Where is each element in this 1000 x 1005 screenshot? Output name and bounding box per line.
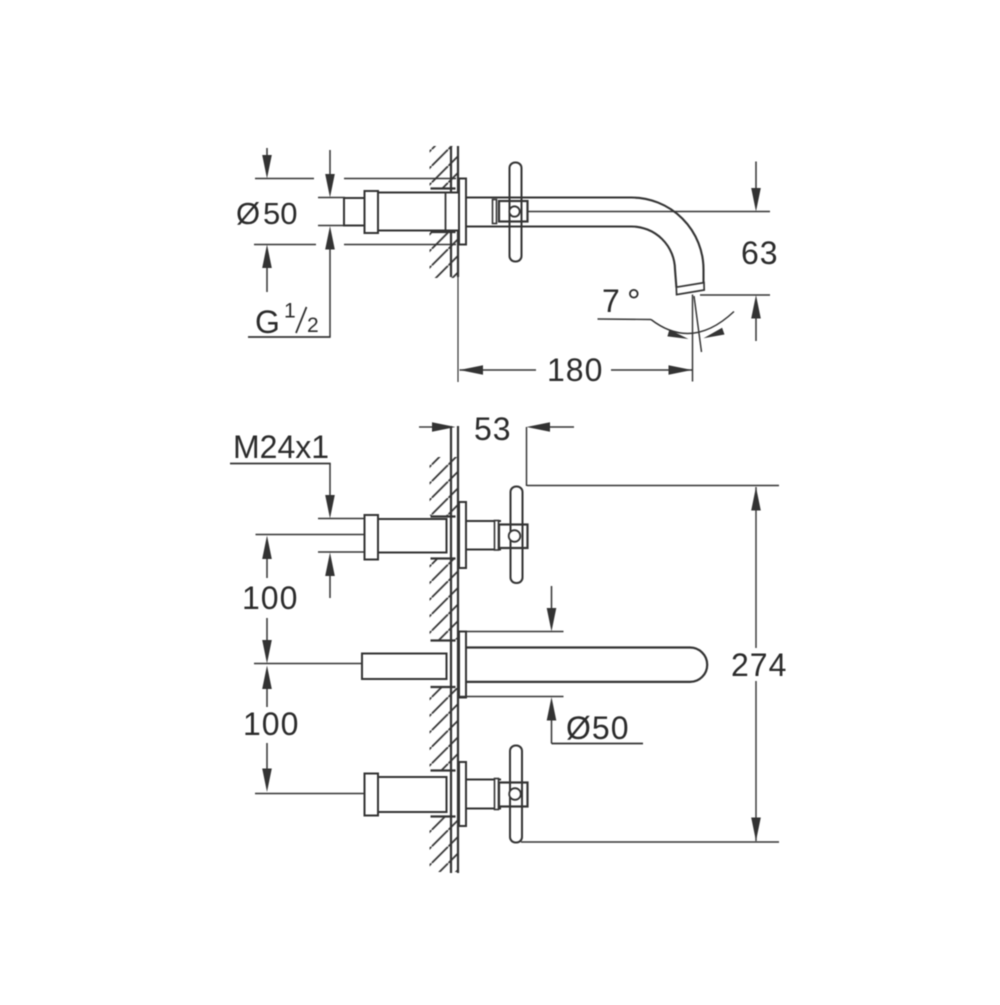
dim Ø50 up arrow: [266, 266, 268, 292]
top valve ring (front): [365, 515, 379, 560]
dim 63 down arrow: [755, 162, 757, 191]
dim 180 line left segment: [460, 369, 537, 371]
svg-text:°: °: [627, 283, 641, 321]
wall face line (left): [450, 146, 452, 277]
wall hatch band 3: [430, 688, 459, 770]
bottom valve hub: [499, 783, 528, 807]
top valve flange: [459, 502, 466, 568]
M24x1 leader underline: [230, 463, 331, 465]
escutcheon flange (side view): [459, 179, 466, 245]
dim 53 right arrowhead and line: [527, 422, 551, 432]
dim 63 extension line bottom: [700, 294, 770, 296]
7 deg right arrowhead: [704, 328, 725, 339]
spout rough-in body (behind wall): [362, 654, 447, 680]
bottom valve body: [378, 777, 447, 812]
M24x1 extension lines: [318, 518, 364, 520]
dim Ø50 extension line bottom: [254, 244, 316, 246]
svg-text:2: 2: [307, 314, 319, 337]
dim 274 down arrowhead: [751, 818, 761, 842]
wall hatch band 2: [430, 560, 459, 640]
spout outlet face (7 deg cut): [676, 283, 704, 295]
wall section hatch (top view, lower band): [430, 233, 459, 279]
bottom valve ring: [365, 774, 379, 816]
top valve hub: [499, 525, 528, 549]
dim 100 lower: down arrow: [266, 743, 268, 771]
G1/2 nipple: [344, 198, 366, 226]
dim G1/2 up arrow with leader: [325, 226, 335, 250]
dim G1/2 extension line bottom: [318, 225, 345, 227]
spout flange (front): [459, 632, 466, 698]
wall hole edges bottom valve: [431, 769, 456, 771]
dim 180 left arrowhead: [460, 365, 484, 375]
wall face line right (front view): [457, 426, 459, 873]
svg-text:180: 180: [547, 352, 603, 388]
dim 274 up arrowhead: [751, 487, 761, 511]
svg-text:100: 100: [242, 580, 298, 616]
spout axis extension line: [254, 663, 362, 665]
svg-text:1: 1: [284, 300, 296, 323]
handle cross bar (side view): [510, 163, 522, 262]
top valve collar: [495, 521, 499, 551]
7 deg left arrowhead: [667, 330, 688, 339]
dim 100 upper: down arrow: [266, 618, 268, 642]
dim Ø50 extension line top: [255, 178, 314, 180]
wall hatch band 4: [430, 818, 459, 873]
bottom valve handle bar: [510, 746, 522, 843]
dim 274 extension line bottom: [521, 841, 779, 843]
dim 180 line right segment: [611, 369, 692, 371]
valve body: [378, 193, 459, 231]
outlet vertical extension line: [692, 295, 694, 382]
bottom valve flange: [459, 762, 466, 826]
svg-text:274: 274: [731, 647, 787, 683]
dim 180 right arrowhead: [669, 365, 693, 375]
M24x1 leader vertical + down arrow: [329, 464, 331, 498]
7 deg tilted stream line: [694, 296, 702, 352]
dim Ø50 (bottom) extension lines: [457, 631, 564, 633]
wall section hatch (top view, upper band): [430, 146, 459, 188]
bottom valve stem lines: [466, 779, 501, 781]
handle hub: [499, 201, 528, 222]
wall hole edges top valve: [431, 515, 456, 517]
top valve axis extension line: [256, 534, 365, 536]
handle screw circle: [509, 206, 519, 216]
svg-text:G: G: [255, 304, 280, 340]
svg-text:7: 7: [602, 283, 620, 319]
wall face line left (front view): [450, 426, 452, 873]
bottom valve screw circle: [509, 788, 521, 800]
dim Ø50 down arrow: [266, 148, 268, 158]
dim 53 left line and arrowhead: [419, 426, 434, 428]
top valve screw circle: [509, 530, 521, 542]
dim 100 upper: up arrow: [262, 536, 272, 560]
dim 63 extension line top (axis): [528, 211, 771, 213]
wall hole edges spout: [431, 639, 456, 641]
dim 274 line upper: [755, 487, 757, 648]
dim 100 lower: up arrow: [262, 666, 272, 690]
wall hole edge (lower): [431, 231, 456, 233]
svg-text:50: 50: [263, 196, 297, 231]
spout tube (front, rounded end): [466, 648, 707, 682]
dim 274 line lower: [755, 681, 757, 841]
top valve stem lines: [466, 520, 501, 522]
valve body wall junction line: [445, 193, 447, 231]
bottom valve collar: [495, 779, 499, 810]
handle stem collar: [493, 200, 497, 224]
wall hatch band 1: [430, 457, 459, 516]
M24x1 up arrow: [325, 553, 335, 577]
spout pipe top outline: [466, 198, 704, 284]
bottom valve axis extension line: [255, 793, 364, 795]
svg-text:63: 63: [741, 235, 779, 271]
wall hole edge (upper): [431, 187, 456, 189]
dim Ø50 (bottom) down arrow: [551, 586, 553, 610]
7 deg leader line: [598, 318, 652, 321]
svg-text:Ø50: Ø50: [566, 710, 629, 746]
dim G1/2 down arrow: [329, 150, 331, 177]
7 deg arc: [651, 312, 734, 334]
wall face line (right): [457, 146, 459, 277]
dim 53 vertical extension to handle: [526, 427, 528, 486]
dim 274 extension line top: [527, 485, 779, 487]
spout pipe bottom outline: [466, 226, 676, 287]
valve ring: [365, 191, 379, 233]
dim G1/2 extension line top: [318, 197, 345, 199]
wall extension line down to 180 dimension: [457, 277, 459, 382]
svg-text:M24x1: M24x1: [233, 429, 329, 465]
dim 63 up arrow: [751, 295, 761, 319]
top valve body (front): [378, 519, 447, 553]
top valve handle bar: [511, 487, 523, 584]
dim Ø50 (bottom) up arrow + leader: [547, 697, 557, 721]
svg-text:Ø: Ø: [236, 196, 260, 231]
svg-text:100: 100: [243, 706, 299, 742]
label G 1/2 leader underline: [248, 336, 331, 338]
svg-text:53: 53: [474, 411, 512, 447]
